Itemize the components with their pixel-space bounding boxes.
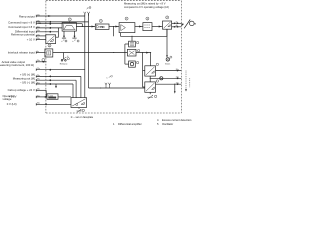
svg-text:PID: PID — [100, 25, 106, 29]
svg-text:Ramp output: Ramp output — [19, 15, 35, 19]
svg-text:n: n — [106, 78, 107, 80]
svg-text:30a: 30a — [37, 82, 40, 84]
svg-text:+ 10 V: + 10 V — [27, 37, 35, 41]
svg-text:2a: 2a — [176, 22, 178, 24]
svg-text:Release: Release — [60, 63, 68, 65]
svg-text:① – set on faceplate: ① – set on faceplate — [71, 115, 94, 119]
svg-text:21a: 21a — [176, 77, 179, 79]
svg-text:compared to 0 V operating volt: compared to 0 V operating voltage (L0) — [124, 5, 169, 9]
svg-text:25a: 25a — [37, 95, 40, 97]
svg-text:− 0/5 (−) [M]: − 0/5 (−) [M] — [20, 80, 35, 84]
svg-text:18a: 18a — [37, 38, 40, 40]
svg-text:Command input ± 8 V: Command input ± 8 V — [8, 25, 35, 29]
svg-text:Oscillator: Oscillator — [162, 122, 173, 126]
svg-text:28a: 28a — [37, 75, 40, 77]
svg-text:26a: 26a — [37, 103, 40, 105]
svg-text:4a: 4a — [176, 25, 178, 27]
svg-text:(measuring instrument, 100 Ω): (measuring instrument, 100 Ω) — [0, 63, 34, 67]
svg-text:17a: 17a — [37, 34, 40, 36]
svg-text:Call-up voltage + 24 V: Call-up voltage + 24 V — [8, 88, 35, 92]
svg-text:29a: 29a — [37, 79, 40, 81]
svg-text:Interlock release input: Interlock release input — [8, 50, 35, 54]
svg-text:Green: Green — [165, 63, 170, 66]
svg-text:voltage: voltage — [3, 97, 12, 101]
svg-text:24a: 24a — [37, 89, 40, 91]
svg-text:Reference potential: Reference potential — [11, 33, 35, 37]
svg-text:19a: 19a — [37, 60, 40, 62]
svg-text:15a: 15a — [37, 26, 40, 28]
svg-text:+ 0/5 (+) [M]: + 0/5 (+) [M] — [20, 73, 35, 77]
svg-text:Differential amplifier: Differential amplifier — [118, 122, 142, 126]
svg-text:27a: 27a — [37, 68, 40, 70]
svg-text:9a: 9a — [37, 51, 39, 53]
svg-text:14a: 14a — [38, 22, 41, 24]
svg-text:22a: 22a — [176, 83, 179, 85]
svg-text:Command input + 8 V: Command input + 8 V — [8, 21, 35, 25]
svg-text:0 V (L0): 0 V (L0) — [7, 102, 17, 106]
svg-text:Excess current detection: Excess current detection — [162, 118, 192, 122]
svg-text:12a: 12a — [37, 14, 40, 16]
svg-text:5.1 A: 5.1 A — [48, 94, 53, 97]
svg-text:Measuring out [M]: Measuring out [M] — [13, 77, 35, 81]
svg-text:16a: 16a — [37, 30, 40, 32]
svg-text:20a: 20a — [176, 69, 179, 71]
